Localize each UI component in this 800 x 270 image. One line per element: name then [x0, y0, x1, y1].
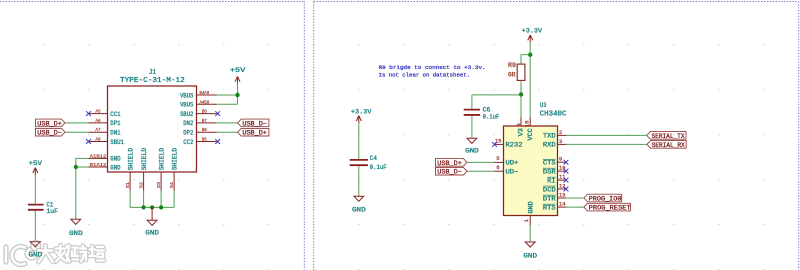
svg-text:0.1uF: 0.1uF	[483, 114, 500, 121]
svg-text:Is not clear on datatsheet.: Is not clear on datatsheet.	[379, 72, 470, 79]
svg-text:RXD: RXD	[543, 142, 556, 149]
svg-text:C4: C4	[370, 155, 377, 162]
connector J1 value TYPE-C-31-M-12	[120, 77, 185, 85]
pin B8 SBU2 of J1	[180, 109, 220, 118]
note text about R9	[379, 64, 486, 79]
net label SERIAL_RX	[647, 141, 686, 149]
net label USB_D+ (left)	[36, 119, 66, 127]
wire C4 to ground	[358, 166, 360, 196]
pin A8 SBU1 of J1	[86, 137, 124, 146]
wire VBUS pins to +5V	[217, 84, 238, 104]
svg-text:A4B9: A4B9	[200, 99, 210, 105]
svg-text:CC2: CC2	[183, 139, 193, 146]
wire DN2 to USB_D-	[217, 122, 238, 124]
wire +5V to C1	[34, 175, 36, 203]
svg-text:DN1: DN1	[110, 130, 120, 137]
svg-text:USB_D−: USB_D−	[242, 120, 267, 127]
power symbol +3.3V above U3	[522, 28, 543, 43]
svg-text:S3: S3	[156, 182, 162, 189]
wire USB_D- to DN1	[65, 131, 89, 133]
ground symbol below C4	[352, 196, 366, 213]
svg-text:USB_D+: USB_D+	[242, 130, 267, 137]
svg-text:GND: GND	[29, 252, 43, 259]
svg-text:RI: RI	[547, 177, 556, 184]
svg-text:DP2: DP2	[183, 130, 193, 137]
wire C6 to ground	[471, 116, 473, 138]
svg-text:13: 13	[559, 191, 566, 198]
svg-text:6: 6	[496, 164, 500, 171]
svg-text:1uF: 1uF	[46, 208, 58, 215]
pin S1 SHIELD of J1	[125, 148, 135, 191]
svg-text:B4A9: B4A9	[200, 90, 210, 96]
svg-text:S4: S4	[169, 182, 175, 189]
svg-text:J1: J1	[149, 69, 156, 77]
svg-text:2: 2	[559, 129, 563, 136]
ground text below C1 (over watermark)	[29, 252, 43, 259]
svg-text:USB_D−: USB_D−	[437, 169, 462, 176]
svg-text:VCC: VCC	[527, 128, 534, 141]
pin 5 UD+ of U3	[494, 155, 519, 167]
ground symbol below C1 redrawn over watermark	[30, 242, 40, 247]
wire DTR to PROG_IO0	[566, 197, 584, 199]
capacitor C4	[350, 155, 387, 171]
wire +3.3V to C4	[358, 123, 360, 159]
svg-text:PROG_IO0: PROG_IO0	[589, 195, 622, 202]
wire J1 GND pins to ground	[76, 158, 89, 219]
pin 4 V3 of U3	[515, 117, 524, 136]
svg-text:+3.3V: +3.3V	[522, 28, 543, 35]
svg-text:B7: B7	[202, 118, 207, 124]
svg-text:GND: GND	[352, 207, 366, 214]
resistor R9	[508, 62, 525, 80]
svg-text:PROG_RESET: PROG_RESET	[589, 205, 631, 212]
IC U3 value CH340C	[540, 111, 567, 119]
svg-text:SERIAL_RX: SERIAL_RX	[652, 142, 685, 149]
pin B1A12 GND of J1	[89, 162, 121, 171]
ground symbol below C6	[465, 138, 479, 154]
IC U3 body	[504, 126, 558, 216]
ground symbol below C1	[30, 242, 40, 247]
svg-text:CH340C: CH340C	[540, 111, 567, 119]
svg-text:DP1: DP1	[110, 120, 120, 127]
pin 12 DCD of U3	[543, 182, 569, 193]
svg-text:5: 5	[496, 155, 500, 162]
net label USB_D- (right of J1)	[238, 119, 269, 127]
svg-text:CTS: CTS	[543, 160, 556, 167]
svg-text:DCD: DCD	[543, 186, 556, 193]
pin 11 RI of U3	[547, 174, 568, 185]
wire +3.3V node to R9	[521, 55, 530, 64]
svg-text:USB_D+: USB_D+	[37, 120, 62, 127]
pin A6 DP1 of J1	[89, 118, 121, 127]
svg-text:GND: GND	[110, 156, 120, 163]
pin A7 DN1 of J1	[89, 127, 121, 136]
pin 10 DSR of U3	[543, 165, 569, 176]
pin S2 SHIELD of J1	[138, 148, 148, 191]
wire USB_D- to UD-	[467, 170, 494, 172]
pin 16 VCC of U3	[524, 117, 534, 141]
connector J1 body	[108, 86, 197, 172]
svg-text:SBU2: SBU2	[180, 111, 193, 118]
junction at V3 node	[519, 92, 523, 96]
svg-text:A8: A8	[95, 137, 100, 143]
svg-text:0R: 0R	[508, 72, 516, 79]
svg-text:14: 14	[559, 201, 566, 208]
wire RXD to SERIAL_RX	[566, 143, 647, 145]
svg-text:B8: B8	[202, 109, 207, 115]
pin 15 R232 of U3	[492, 138, 523, 149]
svg-text:S1: S1	[125, 182, 131, 189]
svg-text:+3.3V: +3.3V	[351, 108, 372, 115]
ground symbol below U3	[523, 242, 537, 260]
power symbol +3.3V at C4	[351, 108, 372, 123]
ground symbol below shield bus	[145, 207, 159, 236]
svg-text:V3: V3	[518, 128, 525, 137]
svg-text:9: 9	[559, 156, 563, 163]
wire TXD to SERIAL_TX	[566, 134, 647, 136]
ground symbol left of J1	[69, 219, 83, 237]
pin 6 UD- of U3	[494, 164, 519, 176]
net label USB_D- (U3 side)	[436, 167, 468, 175]
svg-text:UD−: UD−	[506, 169, 519, 176]
pin A4B9 VBUS of J1	[180, 99, 216, 108]
wire C1 to ground	[34, 211, 36, 242]
svg-text:B6: B6	[202, 127, 207, 133]
pin A1B12 GND of J1	[89, 153, 121, 162]
wire +3.3V down to VCC	[529, 42, 531, 117]
pin 1 GND of U3	[523, 201, 535, 225]
power symbol +5V at J1	[230, 67, 246, 84]
svg-text:SBU1: SBU1	[110, 139, 124, 146]
svg-text:A6: A6	[95, 118, 100, 124]
junction dots on shield bus	[142, 205, 164, 209]
svg-text:GND: GND	[528, 201, 535, 214]
svg-text:B1A12: B1A12	[90, 162, 107, 168]
capacitor C6	[464, 106, 500, 120]
wire shield bus	[130, 191, 174, 208]
svg-text:DSR: DSR	[543, 168, 556, 175]
pin S4 SHIELD of J1	[169, 148, 179, 191]
svg-text:SHIELD: SHIELD	[127, 148, 134, 171]
svg-text:RTS: RTS	[543, 204, 556, 211]
svg-text:USB_D+: USB_D+	[437, 160, 462, 167]
wire V3 node to C6	[472, 95, 521, 109]
svg-text:A7: A7	[95, 127, 100, 133]
net label PROG_RESET	[584, 203, 631, 211]
svg-text:S2: S2	[138, 182, 144, 189]
svg-text:GND: GND	[69, 230, 83, 237]
pin 2 TXD of U3	[543, 129, 566, 140]
pin B6 DP2 of J1	[183, 127, 216, 136]
wire USB_D+ to DP1	[65, 122, 89, 124]
power symbol +5V at C1	[29, 160, 43, 175]
wire RTS to PROG_RESET	[566, 206, 584, 208]
wire DP2 to USB_D+	[217, 131, 238, 133]
wire USB_D+ to UD+	[467, 161, 494, 163]
svg-text:R9 brigde to connect to +3.3v.: R9 brigde to connect to +3.3v.	[379, 64, 486, 71]
pin B5 CC2 of J1	[183, 137, 220, 146]
pin 13 DTR of U3	[543, 191, 566, 202]
svg-text:GND: GND	[465, 147, 479, 154]
wire R9 to V3 node	[520, 80, 522, 117]
svg-text:TXD: TXD	[543, 133, 556, 140]
svg-text:+5V: +5V	[29, 160, 43, 167]
svg-text:VBUS: VBUS	[180, 102, 193, 109]
junction at VBUS node	[235, 93, 239, 97]
pin B4A9 VBUS of J1	[180, 90, 216, 99]
svg-text:GND: GND	[145, 230, 159, 237]
svg-text:U3: U3	[540, 102, 546, 110]
svg-text:R232: R232	[506, 142, 523, 149]
junction at +3.3V node	[528, 53, 532, 57]
connector J1 reference designator	[149, 69, 156, 77]
net label SERIAL_TX	[647, 132, 686, 140]
pin 9 CTS of U3	[543, 156, 569, 167]
IC U3 reference designator	[540, 102, 546, 110]
svg-text:TYPE-C-31-M-12: TYPE-C-31-M-12	[120, 77, 185, 85]
svg-text:3: 3	[559, 138, 563, 145]
svg-text:CC1: CC1	[110, 111, 120, 118]
svg-text:USB_D−: USB_D−	[37, 130, 62, 137]
svg-text:A1B12: A1B12	[90, 153, 107, 159]
capacitor C1	[28, 201, 58, 215]
svg-text:SHIELD: SHIELD	[158, 148, 165, 171]
net label USB_D+ (right of J1)	[238, 128, 269, 136]
svg-text:SHIELD: SHIELD	[141, 148, 148, 171]
pin 14 RTS of U3	[543, 201, 566, 212]
svg-text:R9: R9	[508, 62, 516, 69]
svg-text:UD+: UD+	[506, 160, 519, 167]
svg-text:DTR: DTR	[543, 195, 556, 202]
svg-text:B5: B5	[202, 137, 207, 143]
net label USB_D- (left)	[36, 128, 66, 136]
svg-text:DN2: DN2	[183, 120, 193, 127]
pin S3 SHIELD of J1	[156, 148, 166, 191]
svg-text:GND: GND	[110, 164, 120, 171]
svg-text:VBUS: VBUS	[180, 92, 193, 99]
svg-text:SERIAL_TX: SERIAL_TX	[652, 133, 685, 140]
pin A5 CC1 of J1	[86, 109, 121, 118]
svg-text:GND: GND	[523, 253, 537, 260]
watermark logo	[6, 243, 104, 265]
net label USB_D+ (U3 side)	[436, 159, 468, 167]
pin B7 DN2 of J1	[183, 118, 216, 127]
svg-text:SHIELD: SHIELD	[171, 148, 178, 171]
net label PROG_IO0	[584, 194, 622, 202]
junction at GND wire	[74, 165, 78, 169]
svg-text:A5: A5	[95, 109, 100, 115]
svg-text:+5V: +5V	[230, 67, 246, 74]
pin 3 RXD of U3	[543, 138, 566, 149]
svg-text:C6: C6	[483, 106, 491, 113]
wire U3 GND pin to ground	[529, 225, 531, 242]
svg-text:16: 16	[524, 120, 531, 127]
svg-text:0.1uF: 0.1uF	[370, 164, 387, 171]
